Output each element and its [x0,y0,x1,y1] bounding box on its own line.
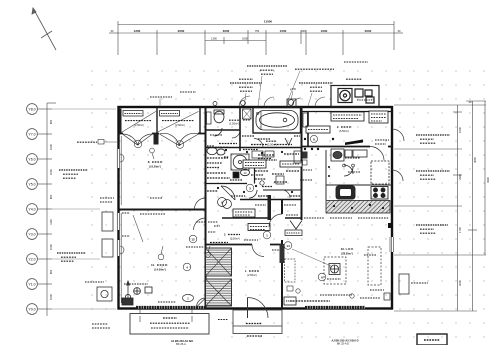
svg-text:800: 800 [49,269,53,274]
boxed annotations washroom [243,160,302,168]
toilet-room washlet counter [207,112,212,124]
svg-text:750: 750 [255,29,260,33]
entrance closets [206,248,232,276]
leader from 14 to floor hatch [292,249,331,266]
LDK dashed boxes [324,247,381,285]
svg-text:1000: 1000 [49,244,53,250]
svg-text:Y3.0: Y3.0 [28,232,35,236]
svg-text:12: 12 [191,237,195,241]
boxed labels above closets [123,111,180,117]
top wall window arcs [239,96,325,107]
svg-text:(10.50m²): (10.50m²) [149,165,161,169]
top dimension labels [111,20,401,41]
left wall windows [117,149,120,256]
svg-text:Y7.0: Y7.0 [28,132,35,136]
electric meter [97,281,130,301]
svg-text:BK 25-A D: BK 25-A D [337,342,349,345]
kozo sansho symbol [98,140,104,145]
V blocking marks [285,138,302,229]
svg-text:3300: 3300 [486,177,490,183]
svg-text:800: 800 [49,194,53,199]
middle strip extra density [207,136,300,196]
door near bottom wall x205 [197,298,206,307]
porch [233,310,282,334]
svg-text:11.: 11. [151,263,155,267]
svg-text:Y8.0: Y8.0 [28,107,35,111]
svg-text:(14.50m²): (14.50m²) [154,268,166,272]
svg-text:2000: 2000 [458,280,462,286]
vents on top wall [213,99,296,107]
misc small symbols [133,215,143,242]
svg-text:(2.50m²): (2.50m²) [134,123,144,127]
boxed annotations right column [306,111,388,133]
svg-text:2000: 2000 [178,29,185,33]
washroom extra fixtures [252,151,301,185]
wall vents semicircles [120,154,124,254]
grid dots [88,64,487,316]
dim ticks room11 top [85,92,196,282]
extra hall dashes [208,62,368,250]
svg-text:(2.50m²): (2.50m²) [230,237,240,241]
svg-text:1600: 1600 [242,37,248,41]
circled numbers [134,140,326,281]
svg-text:9.: 9. [337,125,339,129]
left axis circles Y8..Y0 [27,104,38,315]
svg-text:(2.50m²): (2.50m²) [175,123,185,127]
svg-text:30: 30 [111,29,114,33]
left extension lines [52,109,116,309]
circled 1 with ellipse near bottom [183,294,194,301]
svg-text:Y5.0: Y5.0 [28,182,35,186]
closet interior diagonals [122,111,199,132]
svg-text:1500: 1500 [280,29,287,33]
dark bar in storeroom [345,140,363,146]
kitchen [326,185,392,199]
svg-text:Y2.0: Y2.0 [28,257,35,261]
top dimension lines [109,21,403,55]
annex (laundry) top right [331,86,379,108]
right column fixtures (washbasin units, fridge) [331,149,389,184]
svg-text:2000: 2000 [365,29,372,33]
boxed label below V [285,230,302,236]
svg-text:1000: 1000 [49,144,53,150]
svg-text:200: 200 [301,29,306,33]
svg-text:1200: 1200 [134,29,141,33]
kitchen-left pipe chase + marks [303,152,308,159]
interior walls [119,107,393,309]
room labels [125,120,354,277]
dense text marks washroom [207,144,330,302]
svg-text:4050: 4050 [473,157,477,163]
washroom fixtures [207,147,257,200]
svg-text:(1.50m²): (1.50m²) [229,122,239,126]
dark wall bar hall [268,195,272,220]
bottom-left interior fixtures [122,287,152,305]
bathtub [256,111,298,131]
LDK small symbols [287,286,354,298]
svg-text:11000: 11000 [264,20,273,24]
bath deck line + shower [260,111,262,131]
interior door arcs misc [194,147,385,257]
closet X diagonals entrance [206,248,232,306]
right annotations [416,135,450,233]
small door arcs middle [232,130,290,198]
svg-text:10. L D K: 10. L D K [341,247,355,251]
right wall door arcs [392,129,404,181]
toilet [214,110,224,136]
main outer wall [119,107,393,309]
svg-text:3000: 3000 [223,29,230,33]
closet door arcs [123,133,199,145]
hall boxed annotations [233,209,270,231]
north arrow diagonal [32,8,56,50]
stamp bottom right [417,334,447,345]
svg-text:(2.50m²): (2.50m²) [247,273,257,277]
dashed rect right of entrance wall [285,259,296,282]
fan symbol + circled 9 [218,198,232,209]
svg-text:1700: 1700 [458,227,462,233]
top annotations [230,66,362,91]
svg-text:Y6.0: Y6.0 [28,157,35,161]
callout box bottom [130,314,209,335]
svg-text:2.: 2. [224,233,226,237]
right vertical dimension lines [394,101,486,311]
svg-text:14: 14 [286,244,290,248]
svg-text:1000: 1000 [49,169,53,175]
svg-text:Y4.0: Y4.0 [28,207,35,211]
scattered tiny annotation marks [122,120,389,320]
hall hatched wall [280,244,285,263]
bottom windows (hatched bands) [136,306,365,309]
ps shaft between toilet and bath [243,109,252,119]
room8 pull switch [150,148,155,159]
svg-text:30: 30 [398,29,401,33]
left wall inner offset line [120,136,122,205]
AC units [102,212,409,294]
svg-text:(5.50m²): (5.50m²) [339,129,349,133]
svg-text:1000: 1000 [321,29,328,33]
svg-text:Y1.0: Y1.0 [28,282,35,286]
svg-text:1.: 1. [245,269,247,273]
entrance door arc [247,298,249,319]
svg-text:1300: 1300 [211,37,217,41]
svg-text:1500: 1500 [458,127,462,133]
svg-text:2300: 2300 [458,174,462,180]
right wall window + marks [390,237,394,252]
svg-text:(23.00m²): (23.00m²) [341,252,353,256]
svg-text:1000: 1000 [49,294,53,300]
outlet dots [304,138,363,150]
svg-text:800: 800 [49,119,53,124]
left annotations [57,142,97,261]
left vertical dimension line [38,103,56,316]
svg-text:8.: 8. [148,160,151,164]
svg-text:1100: 1100 [49,219,53,225]
svg-text:Y0.0: Y0.0 [28,307,35,311]
